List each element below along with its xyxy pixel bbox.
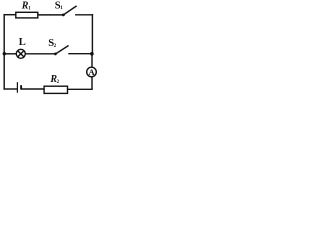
svg-text:L: L — [19, 37, 26, 48]
svg-text:A: A — [89, 67, 96, 77]
